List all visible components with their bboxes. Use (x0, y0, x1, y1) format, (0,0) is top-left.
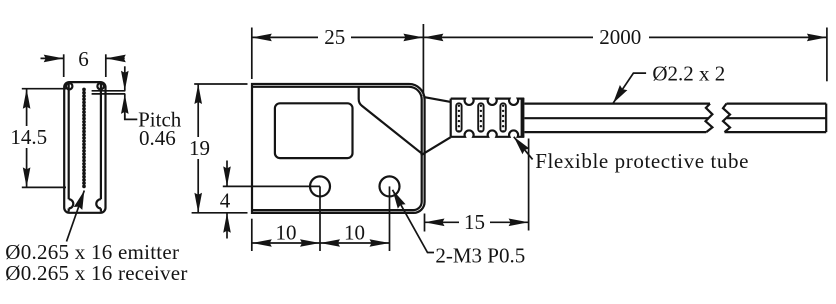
dimension 19 extension lines (192, 84, 248, 213)
svg-text:2000: 2000 (599, 25, 641, 49)
dimension 6 extension lines (64, 54, 106, 77)
pitch text line 1 (138, 107, 182, 131)
fiber head body outline (64, 82, 105, 213)
dimension 10 text left (276, 221, 297, 245)
svg-text:Ø2.2 x 2: Ø2.2 x 2 (652, 61, 725, 85)
flexible tube text (535, 149, 749, 173)
tube end cap (521, 98, 525, 137)
svg-text:Ø0.265 x 16 receiver: Ø0.265 x 16 receiver (5, 261, 187, 285)
dimension 2000 line and arrows (423, 34, 827, 42)
fiber array bead line (82, 88, 86, 189)
fiber head inner wall left (68, 84, 70, 212)
cable left segment (525, 104, 711, 133)
svg-text:0.46: 0.46 (139, 126, 176, 150)
flexible tube outline (451, 99, 525, 137)
wedge face edge (359, 87, 423, 155)
mounting holes leader (393, 190, 435, 253)
svg-text:2-M3 P0.5: 2-M3 P0.5 (435, 244, 525, 268)
dimension 4 arrows (223, 161, 231, 239)
svg-text:25: 25 (324, 25, 345, 49)
tube rib slots (456, 103, 506, 132)
svg-text:14.5: 14.5 (10, 125, 47, 149)
taper bottom edge (421, 137, 451, 155)
dimension 25 extension line (251, 28, 253, 80)
fiber head top-right hole (97, 83, 103, 89)
emitter-receiver leader (67, 191, 85, 242)
fiber head bottom-left notch (69, 199, 74, 208)
dimension 25 text (324, 25, 345, 49)
fiber head inner wall right (100, 84, 102, 212)
sensor body inner edge (252, 87, 421, 210)
dimension 10 lines and arrows (252, 239, 390, 247)
emitter label (5, 240, 179, 264)
hole centerline (223, 185, 320, 187)
mounting hole 2 (380, 176, 400, 196)
dimension 14.5 extension lines (22, 89, 66, 188)
dimension 6 text (78, 47, 89, 71)
dimension 10 extension line (251, 219, 253, 251)
svg-text:Flexible protective tube: Flexible protective tube (535, 149, 749, 173)
fiber head bottom-right notch (96, 199, 101, 208)
dimension 2000 extension line (826, 28, 828, 82)
fiber head top-left hole (66, 83, 72, 89)
svg-text:10: 10 (276, 221, 297, 245)
dimension 10 text right (344, 221, 365, 245)
cable right segment (725, 104, 827, 133)
receiver label (5, 261, 187, 285)
dimension 14.5 text (10, 125, 47, 149)
taper top edge (425, 97, 451, 102)
pitch reference lines (92, 91, 126, 94)
svg-text:6: 6 (78, 47, 89, 71)
dimension 4 text (220, 189, 231, 213)
display window (275, 103, 353, 158)
cable break left (706, 104, 713, 133)
shared extension line (422, 24, 424, 96)
dimension 19 arrows (194, 84, 202, 213)
svg-text:19: 19 (189, 136, 210, 160)
hole 1 extension stub (319, 186, 321, 251)
hole 2 extension stub (389, 186, 391, 251)
svg-text:10: 10 (344, 221, 365, 245)
pitch arrows (121, 66, 129, 119)
mounting hole 1 (310, 176, 330, 196)
pitch leader (125, 115, 138, 120)
thread spec text (435, 244, 525, 268)
dimension 15 line and arrows (425, 219, 529, 227)
dimension 19 text (189, 136, 210, 160)
pitch text line 2 (139, 126, 176, 150)
cable diameter leader (613, 73, 646, 103)
dimension 2000 text (599, 25, 641, 49)
cable diameter text (652, 61, 725, 85)
dimension 6 arrows (41, 55, 126, 63)
flexible tube leader (514, 137, 533, 160)
dimension 14.5 arrows (23, 89, 31, 188)
dimension 15 text (464, 210, 485, 234)
cable break right (723, 104, 730, 133)
sensor body outline (252, 84, 425, 213)
svg-text:15: 15 (464, 210, 485, 234)
svg-text:4: 4 (220, 189, 231, 213)
dimension 15 extension lines (425, 139, 529, 232)
dimension 25 line and arrows (252, 34, 424, 42)
